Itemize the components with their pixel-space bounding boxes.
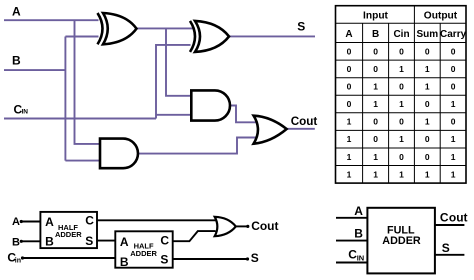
svg-text:ADDER: ADDER — [55, 230, 82, 239]
svg-text:B: B — [12, 237, 20, 249]
svg-text:0: 0 — [451, 46, 456, 56]
svg-text:0: 0 — [373, 117, 378, 127]
svg-text:A: A — [354, 204, 363, 218]
svg-text:A: A — [12, 216, 20, 228]
svg-text:B: B — [12, 53, 21, 67]
svg-text:S: S — [85, 234, 93, 248]
svg-text:1: 1 — [373, 169, 378, 179]
svg-text:in: in — [15, 258, 21, 265]
svg-text:IN: IN — [357, 254, 365, 263]
svg-text:1: 1 — [373, 152, 378, 162]
svg-text:S: S — [160, 252, 168, 266]
svg-text:B: B — [354, 227, 363, 241]
svg-text:B: B — [120, 255, 129, 269]
svg-text:ADDER: ADDER — [130, 249, 157, 258]
svg-text:out: out — [449, 211, 468, 225]
svg-text:0: 0 — [373, 64, 378, 74]
svg-text:0: 0 — [425, 134, 430, 144]
svg-text:S: S — [297, 19, 305, 33]
svg-text:C: C — [440, 211, 449, 225]
svg-text:1: 1 — [373, 99, 378, 109]
svg-text:Sum: Sum — [416, 29, 438, 40]
svg-text:Input: Input — [363, 10, 388, 21]
svg-text:0: 0 — [347, 99, 352, 109]
svg-text:0: 0 — [373, 46, 378, 56]
svg-text:0: 0 — [399, 117, 404, 127]
svg-text:0: 0 — [451, 64, 456, 74]
svg-text:1: 1 — [451, 169, 456, 179]
svg-text:0: 0 — [451, 117, 456, 127]
svg-text:1: 1 — [347, 169, 352, 179]
svg-text:0: 0 — [347, 82, 352, 92]
svg-text:Cout: Cout — [251, 219, 278, 233]
svg-text:0: 0 — [399, 152, 404, 162]
svg-text:A: A — [345, 29, 352, 40]
svg-text:1: 1 — [425, 117, 430, 127]
svg-text:1: 1 — [399, 64, 404, 74]
svg-text:S: S — [442, 241, 450, 255]
svg-text:Cout: Cout — [291, 115, 318, 128]
svg-text:IN: IN — [22, 109, 29, 116]
svg-text:C: C — [160, 233, 169, 247]
svg-text:1: 1 — [425, 169, 430, 179]
svg-text:0: 0 — [399, 82, 404, 92]
svg-text:1: 1 — [451, 134, 456, 144]
svg-text:Carry: Carry — [440, 29, 467, 40]
svg-text:1: 1 — [451, 99, 456, 109]
svg-text:0: 0 — [425, 99, 430, 109]
svg-text:0: 0 — [399, 46, 404, 56]
svg-text:1: 1 — [347, 117, 352, 127]
svg-text:1: 1 — [347, 152, 352, 162]
svg-text:Output: Output — [424, 10, 458, 21]
svg-text:0: 0 — [347, 46, 352, 56]
svg-text:0: 0 — [425, 46, 430, 56]
svg-text:A: A — [45, 215, 54, 229]
svg-text:1: 1 — [451, 152, 456, 162]
svg-text:1: 1 — [399, 169, 404, 179]
svg-text:0: 0 — [425, 152, 430, 162]
svg-text:1: 1 — [373, 82, 378, 92]
svg-text:0: 0 — [451, 82, 456, 92]
svg-text:1: 1 — [425, 82, 430, 92]
svg-text:S: S — [251, 251, 259, 265]
svg-text:B: B — [372, 29, 379, 40]
svg-text:Cin: Cin — [393, 29, 409, 40]
svg-text:1: 1 — [425, 64, 430, 74]
svg-text:C: C — [85, 214, 94, 228]
svg-text:A: A — [12, 5, 21, 19]
svg-text:ADDER: ADDER — [382, 235, 421, 247]
svg-text:B: B — [45, 235, 54, 249]
svg-text:A: A — [120, 235, 129, 249]
svg-text:0: 0 — [373, 134, 378, 144]
svg-text:1: 1 — [347, 134, 352, 144]
svg-text:1: 1 — [399, 134, 404, 144]
svg-text:1: 1 — [399, 99, 404, 109]
svg-text:0: 0 — [347, 64, 352, 74]
